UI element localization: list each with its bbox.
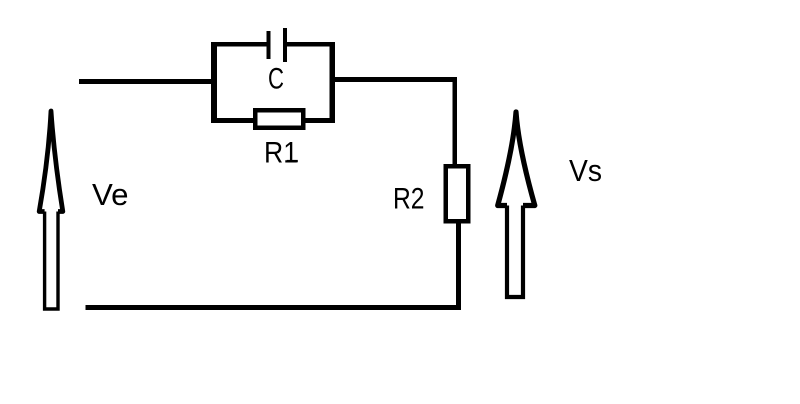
svg-text:R1: R1 [264,136,298,169]
svg-text:C: C [268,62,284,95]
wire block bottom right segment [305,118,335,123]
resistor R1 [255,110,303,128]
capacitor C left plate [267,31,271,59]
wire down to R2 [452,77,457,165]
wire parallel-block left vertical [211,42,217,123]
svg-text:Vs: Vs [569,153,602,188]
wire input left horizontal [79,79,216,84]
wire capacitor right plate to block right vertical [287,42,335,47]
label R1 digit foot serif [287,160,298,162]
svg-text:Ve: Ve [92,177,129,212]
wire R2 down to bottom rail [456,223,461,310]
svg-text:R2: R2 [393,182,425,215]
voltage arrow Ve [39,111,63,309]
resistor R2 [446,166,469,221]
wire parallel-block right vertical [330,42,336,123]
wire block bottom left segment [211,118,254,123]
wire bottom rail [86,305,462,310]
wire output top horizontal [330,77,457,82]
capacitor C right plate [283,28,287,62]
voltage arrow Vs [498,112,535,297]
wire top to capacitor left plate [211,42,267,47]
